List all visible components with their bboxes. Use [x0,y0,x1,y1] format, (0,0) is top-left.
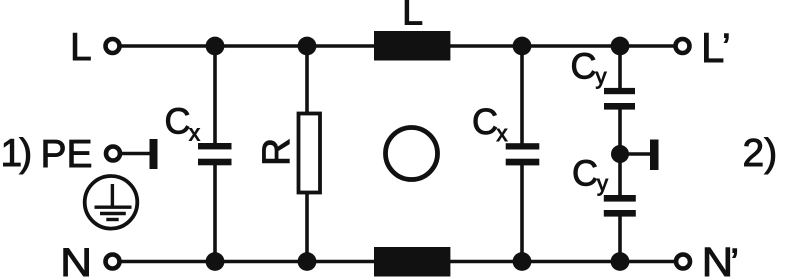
wire Cx1 branch lower [213,163,217,262]
wire Cx1 branch upper [213,46,217,145]
terminal L [106,39,120,53]
node dot top R [298,37,317,56]
Cy node tap bar [650,140,659,171]
svg-text:2): 2) [743,132,778,175]
wire PE stub [122,152,151,156]
svg-text:R: R [255,138,298,166]
svg-text:L: L [70,26,92,69]
terminal PE [106,147,120,161]
wire Cx2 branch upper [520,46,524,145]
wire Cy2 branch lower [618,214,622,262]
terminal L' [676,39,690,53]
node dot Cy midpoint [611,145,629,163]
node dot bottom R [298,252,317,271]
wire R branch lower [305,192,309,262]
svg-text:N’: N’ [702,239,739,277]
wire Cy node stub [620,152,651,156]
svg-text:L’: L’ [701,24,731,71]
protective earth symbol [85,176,138,229]
svg-text:PE: PE [41,133,93,176]
node dot bottom Cy2 [611,252,630,271]
inductor L winding bottom [374,247,450,277]
capacitor Cx2 [506,143,540,165]
node dot bottom Cx1 [206,252,225,271]
svg-text:L: L [402,0,423,34]
wire top rail right [450,44,674,48]
capacitor Cx1 [198,143,232,165]
node dot top Cx2 [513,37,532,56]
wire bottom rail left [121,260,374,264]
wire bottom rail right [450,260,675,264]
wire Cx2 branch lower [520,163,524,262]
terminal N' [676,255,690,269]
inductor L winding top [374,31,450,61]
svg-text:1): 1) [1,132,31,175]
wire Cy1 to node [618,108,622,154]
inductor core circle [386,128,438,180]
wire R branch upper [305,46,309,114]
node dot top Cx1 [206,37,225,56]
PE tap bar [150,139,158,169]
svg-text:N: N [60,241,92,277]
capacitor Cy1 [604,88,635,110]
capacitor Cy2 [604,195,636,217]
wire top rail left [121,44,374,48]
node dot top Cy1 [611,37,630,56]
wire node to Cy2 [618,154,622,196]
wire Cy1 branch upper [618,46,622,90]
node dot bottom Cx2 [513,252,532,271]
resistor R [299,114,321,193]
terminal N [106,255,120,269]
